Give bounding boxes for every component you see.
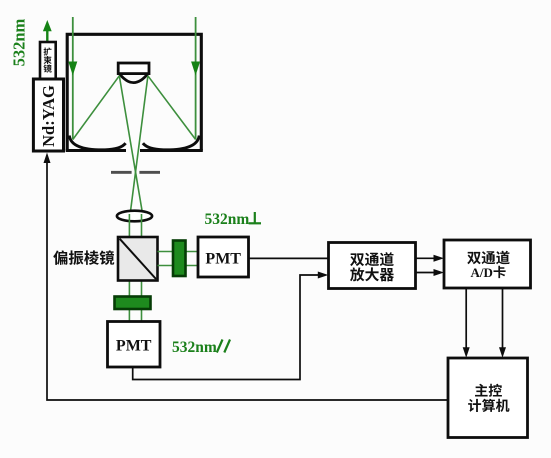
svg-text:532nm: 532nm <box>172 339 217 356</box>
secondary mirror <box>118 63 149 74</box>
PMT detector 2 <box>108 322 161 368</box>
telescope tube box <box>67 34 201 150</box>
label 偏振棱镜 <box>53 250 114 265</box>
wire laser output beam (green, up) <box>46 30 48 43</box>
ray incoming right (green, down arrow) <box>195 17 197 140</box>
wire amplifier to A/D (ch2, arrow) <box>416 272 437 274</box>
interference filter (horizontal, green) <box>115 297 151 310</box>
PMT detector 1 <box>198 237 249 277</box>
A/D card box 双通道A/D卡 <box>444 240 531 288</box>
svg-text:532nm: 532nm <box>10 19 29 67</box>
svg-text:PMT: PMT <box>205 251 241 268</box>
svg-text:A/D: A/D <box>471 265 493 280</box>
wire A/D to computer (ch2, arrow down) <box>502 288 504 350</box>
svg-text:Nd:YAG: Nd:YAG <box>39 85 58 147</box>
wire A/D to computer (ch1, arrow down) <box>465 288 467 350</box>
wire PMT1 to amplifier <box>249 257 329 259</box>
ray reflected left (primary to secondary) <box>73 76 120 140</box>
wire trigger: computer to laser <box>47 160 448 400</box>
ray reflected right (primary to secondary) <box>148 76 196 140</box>
main control computer 主控计算机 <box>448 358 528 438</box>
ray vertical pair below lens (to polarizer/PMT) <box>128 214 130 322</box>
svg-text:PMT: PMT <box>116 338 152 355</box>
ray converging left (secondary to focus to lens) <box>119 76 143 218</box>
laser Nd:YAG <box>33 79 63 151</box>
ray horizontal pair (prism to PMT1) <box>158 251 199 253</box>
wire amplifier to A/D (ch1, arrow) <box>416 257 437 259</box>
wire PMT2 to amplifier (with arrow) <box>133 275 320 380</box>
primary mirror (two arcs with central hole) <box>69 136 125 150</box>
svg-text:532nm: 532nm <box>205 211 250 228</box>
polarizing beamsplitter prism 偏振棱镜 <box>118 237 158 281</box>
ray converging right (secondary to focus to lens) <box>130 76 148 218</box>
collimating lens <box>117 211 152 222</box>
ray incoming left (green, down arrow) <box>72 17 74 140</box>
amplifier box 双通道放大器 <box>329 243 416 289</box>
field stop (two slits) <box>111 171 132 174</box>
interference filter (vertical, green) <box>173 241 186 277</box>
beam expander box 扩束镜 <box>40 42 56 79</box>
